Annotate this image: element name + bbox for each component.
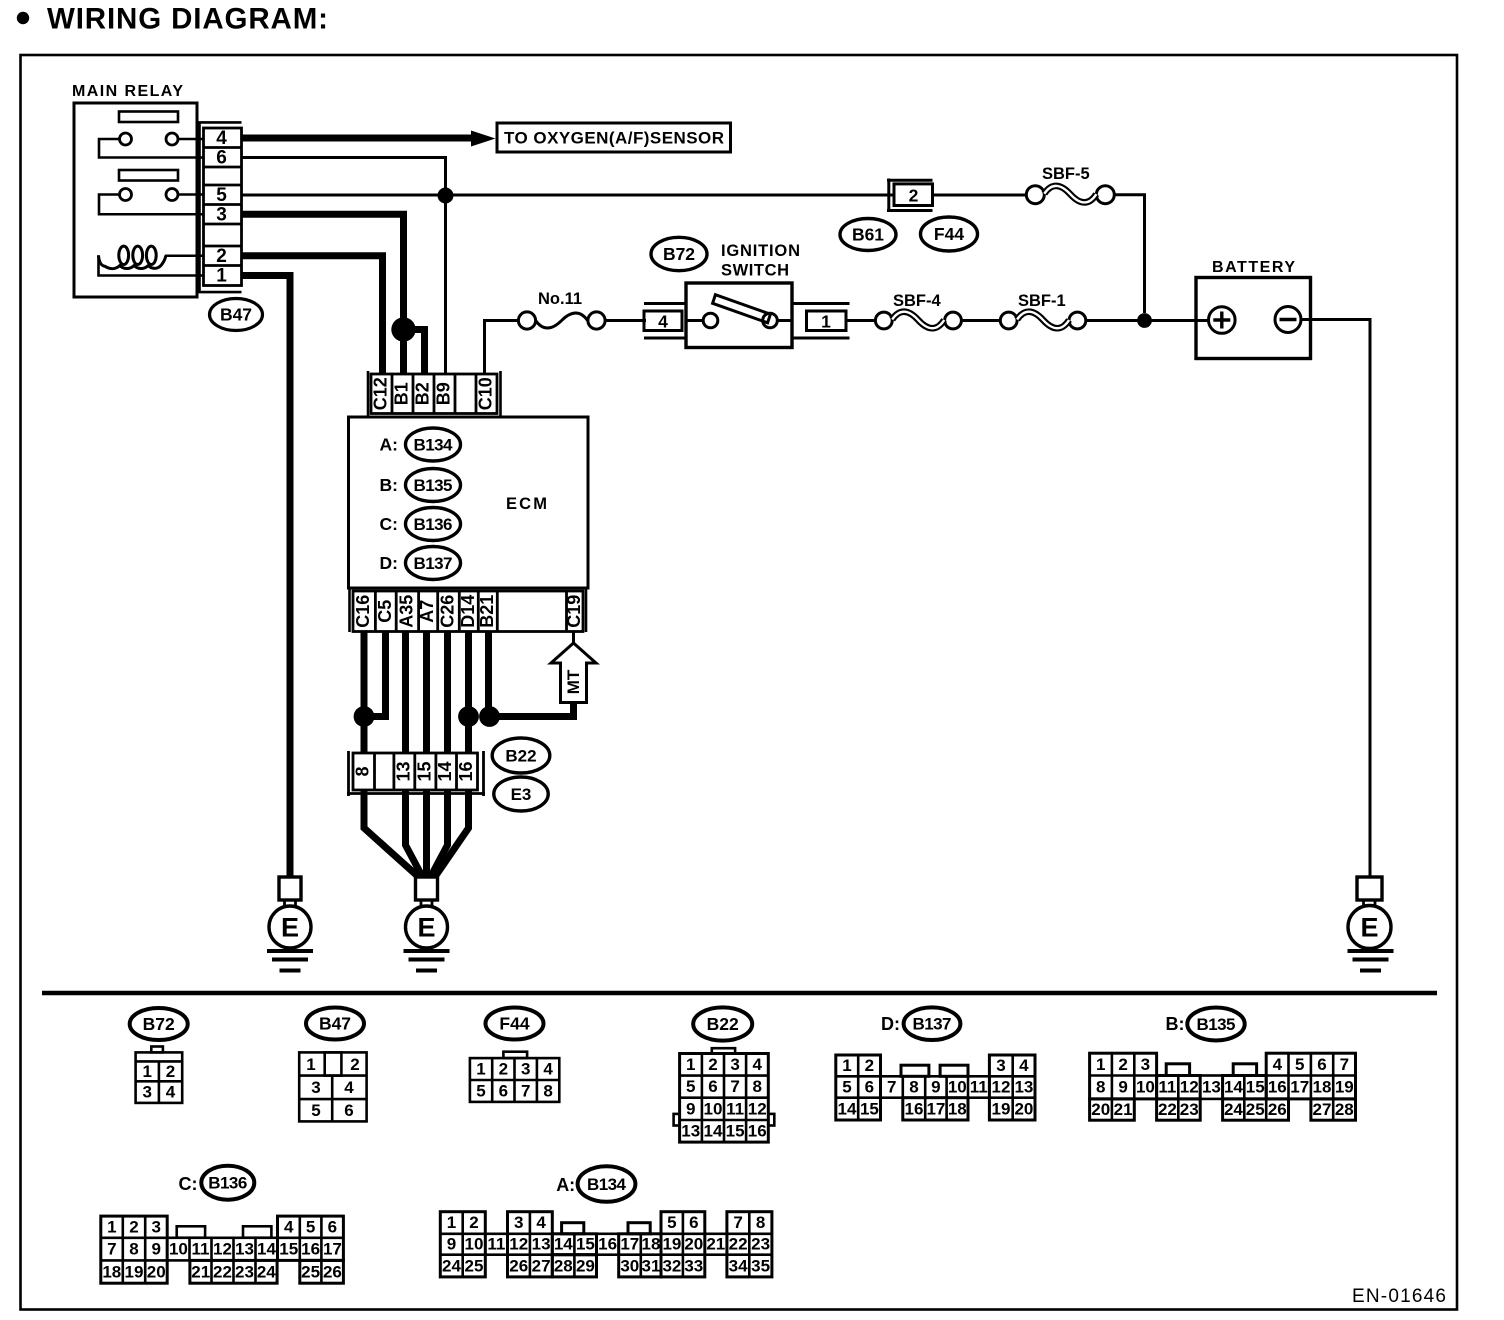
svg-text:5: 5 [667, 1213, 676, 1232]
svg-text:18: 18 [642, 1235, 661, 1254]
wire out of ignition switch [777, 319, 792, 322]
svg-text:13: 13 [1014, 1078, 1033, 1097]
wire relay pin 6 to ECM B9 [242, 158, 446, 375]
svg-text:B61: B61 [852, 225, 884, 245]
svg-text:27: 27 [532, 1256, 551, 1275]
svg-text:26: 26 [509, 1256, 528, 1275]
svg-text:11: 11 [487, 1235, 505, 1254]
svg-text:15: 15 [279, 1240, 298, 1259]
svg-text:17: 17 [620, 1235, 639, 1254]
svg-text:12: 12 [213, 1240, 232, 1259]
svg-text:15: 15 [414, 761, 434, 781]
svg-text:6: 6 [708, 1077, 717, 1096]
E3 connector pin labels [353, 761, 476, 781]
svg-text:SBF-4: SBF-4 [893, 292, 941, 310]
svg-text:2: 2 [708, 1055, 717, 1074]
fuse SBF-5 [1026, 186, 1114, 204]
svg-text:No.11: No.11 [538, 290, 582, 308]
svg-text:6: 6 [689, 1213, 698, 1232]
ignition switch left contact [703, 313, 718, 328]
svg-text:1: 1 [107, 1217, 116, 1236]
svg-text:TO OXYGEN(A/F)SENSOR: TO OXYGEN(A/F)SENSOR [504, 129, 724, 148]
svg-text:4: 4 [344, 1078, 354, 1097]
svg-text:26: 26 [1268, 1100, 1287, 1119]
svg-text:10: 10 [948, 1078, 967, 1097]
svg-text:D:: D: [881, 1014, 900, 1034]
svg-text:1: 1 [447, 1213, 456, 1232]
relay connector B47 bracket [200, 122, 242, 292]
ECM connector B B135 oval [406, 469, 461, 502]
relay pin numbers [216, 128, 227, 287]
svg-text:16: 16 [905, 1099, 924, 1118]
svg-text:MAIN RELAY: MAIN RELAY [72, 83, 183, 100]
svg-text:28: 28 [1335, 1100, 1354, 1119]
svg-text:5: 5 [1295, 1055, 1304, 1074]
svg-text:D14: D14 [458, 595, 478, 628]
svg-text:C26: C26 [438, 595, 458, 628]
svg-text:18: 18 [1313, 1078, 1332, 1097]
svg-text:3: 3 [311, 1078, 320, 1097]
svg-text:12: 12 [1180, 1078, 1199, 1097]
wire E3 pin 14 to ground [431, 790, 448, 876]
wire E3 pin 8 to ground [364, 790, 418, 876]
relay switch 1 left contact [120, 133, 132, 145]
connector label F44 oval [921, 217, 978, 251]
relay switch 2 left contact [120, 189, 132, 201]
svg-text:5: 5 [686, 1077, 695, 1096]
wire ignition pin1 to SBF-4 [846, 319, 875, 322]
wire coil right end to pin 2 [165, 254, 203, 257]
svg-text:B72: B72 [143, 1014, 175, 1034]
ECM connector A B134 oval [406, 428, 461, 461]
wire relay pin 5 toward fuse box connector 2 [242, 194, 895, 197]
svg-text:19: 19 [662, 1235, 681, 1254]
svg-text:MT: MT [564, 669, 583, 694]
ground E middle [404, 877, 450, 971]
svg-text:6: 6 [865, 1078, 874, 1097]
svg-text:31: 31 [642, 1256, 661, 1275]
svg-text:2: 2 [1118, 1055, 1127, 1074]
wire E3 pin 13 to ground [406, 790, 423, 876]
svg-text:15: 15 [860, 1099, 879, 1118]
svg-text:6: 6 [328, 1217, 337, 1236]
svg-text:16: 16 [301, 1240, 320, 1259]
svg-text:16: 16 [1268, 1078, 1287, 1097]
relay switch 1 right contact [166, 133, 178, 145]
svg-text:14: 14 [704, 1122, 723, 1141]
svg-text:17: 17 [1290, 1078, 1309, 1097]
svg-text:4: 4 [1273, 1055, 1283, 1074]
svg-text:11: 11 [1158, 1078, 1176, 1097]
svg-text:4: 4 [752, 1055, 762, 1074]
svg-text:C10: C10 [476, 377, 496, 410]
svg-text:8: 8 [756, 1213, 765, 1232]
fuse No.11 [518, 312, 605, 329]
svg-text:B72: B72 [663, 244, 695, 264]
wire switch2 left contact to pin 3 [99, 195, 203, 215]
pinout B72 connector [136, 1047, 183, 1103]
svg-text:6: 6 [344, 1101, 353, 1120]
ECM bottom connector pin labels [353, 595, 584, 628]
svg-text:5: 5 [311, 1101, 320, 1120]
pinout F44 connector [470, 1052, 559, 1102]
svg-text:35: 35 [751, 1256, 770, 1275]
pinout B47 connector [299, 1052, 366, 1121]
junction dot pin5/pin6 [438, 188, 454, 204]
svg-text:19: 19 [992, 1099, 1011, 1118]
wire ECM C10 to fuse No.11 [485, 321, 519, 375]
svg-text:32: 32 [662, 1256, 681, 1275]
svg-text:10: 10 [1136, 1078, 1155, 1097]
wire switch2 right contact to pin 5 [178, 193, 203, 196]
svg-text:C12: C12 [371, 377, 391, 410]
svg-text:10: 10 [169, 1240, 188, 1259]
wire fuse No.11 to ignition switch pin 4 [605, 319, 646, 322]
connector label B61 oval [840, 219, 896, 251]
wire C26 to E3 pin 14 [444, 632, 451, 754]
svg-text:3: 3 [151, 1217, 160, 1236]
svg-text:19: 19 [125, 1262, 144, 1281]
separator line above connector pinout section [42, 991, 1437, 996]
pinout D:B137 connector [836, 1055, 1035, 1120]
svg-text:22: 22 [213, 1262, 232, 1281]
svg-text:6: 6 [1317, 1055, 1326, 1074]
ECM bottom connector pin strip [353, 591, 583, 632]
svg-text:WIRING DIAGRAM:: WIRING DIAGRAM: [47, 3, 328, 36]
pinout A:B134 connector [440, 1212, 772, 1277]
ECM bottom connector bracket [350, 588, 587, 632]
ignition switch pin 4 box [644, 304, 686, 339]
wire SBF-1 to battery positive [1086, 319, 1209, 322]
ignition switch right contact [763, 313, 778, 328]
svg-text:1: 1 [1096, 1055, 1105, 1074]
svg-text:1: 1 [821, 312, 831, 332]
junction dot battery feed [1137, 313, 1152, 328]
svg-text:14: 14 [838, 1099, 857, 1118]
svg-text:9: 9 [931, 1078, 940, 1097]
svg-text:B21: B21 [477, 595, 497, 628]
svg-text:2: 2 [469, 1213, 478, 1232]
fuse box connector 2 bracket [887, 179, 933, 213]
ECM connector C B136 oval [406, 508, 461, 541]
main relay box [74, 103, 197, 297]
svg-text:17: 17 [926, 1099, 945, 1118]
svg-text:9: 9 [447, 1235, 456, 1254]
svg-text:B134: B134 [587, 1175, 627, 1194]
svg-text:14: 14 [1224, 1078, 1243, 1097]
svg-text:B1: B1 [392, 382, 412, 405]
svg-text:3: 3 [521, 1060, 530, 1079]
relay connector B47 pin strip [204, 128, 242, 286]
svg-text:5: 5 [476, 1082, 485, 1101]
wire C16 to E3 pin 8 [361, 632, 368, 754]
battery negative terminal [1275, 307, 1301, 333]
wire junction to MT arrow [490, 700, 574, 717]
wire battery negative to ground [1301, 320, 1370, 878]
svg-text:14: 14 [554, 1235, 573, 1254]
svg-text:23: 23 [1180, 1100, 1199, 1119]
svg-text:8: 8 [1096, 1078, 1105, 1097]
wire relay pin 2 to ECM C12 [242, 256, 383, 374]
svg-text:C:: C: [179, 1174, 198, 1194]
svg-text:27: 27 [1313, 1100, 1332, 1119]
svg-text:9: 9 [1118, 1078, 1127, 1097]
svg-text:18: 18 [102, 1262, 121, 1281]
svg-text:IGNITION: IGNITION [721, 242, 800, 260]
svg-text:4: 4 [658, 312, 668, 332]
svg-text:3: 3 [142, 1083, 151, 1102]
junction dot pin3 branch [391, 317, 415, 341]
svg-text:25: 25 [1246, 1100, 1265, 1119]
svg-text:24: 24 [257, 1262, 276, 1281]
svg-text:7: 7 [521, 1082, 530, 1101]
svg-text:7: 7 [887, 1078, 896, 1097]
wire relay pin 4 to oxygen sensor arrow [242, 135, 474, 142]
E3 connector bracket [347, 751, 485, 796]
svg-text:2: 2 [499, 1060, 508, 1079]
svg-text:14: 14 [435, 761, 455, 781]
svg-text:21: 21 [1114, 1100, 1133, 1119]
svg-text:SWITCH: SWITCH [721, 262, 789, 280]
svg-text:4: 4 [536, 1213, 546, 1232]
svg-text:21: 21 [191, 1262, 210, 1281]
svg-text:17: 17 [323, 1240, 342, 1259]
wire A7 to E3 pin 15 [423, 632, 430, 754]
svg-text:11: 11 [970, 1078, 988, 1097]
svg-text:13: 13 [393, 761, 413, 781]
svg-text:7: 7 [1340, 1055, 1349, 1074]
svg-text:8: 8 [353, 766, 373, 776]
svg-text:15: 15 [1246, 1078, 1265, 1097]
connector label E3 oval [494, 777, 548, 811]
wire relay pin 1 to ground [242, 276, 291, 878]
wire A35 to E3 pin 13 [402, 632, 409, 754]
wire B21 down to MT junction [485, 632, 492, 717]
svg-text:25: 25 [301, 1262, 320, 1281]
svg-text:11: 11 [192, 1240, 210, 1259]
wire E3 pin 16 to ground [436, 790, 469, 876]
ECM top connector pin labels [371, 377, 496, 410]
svg-text:13: 13 [681, 1122, 700, 1141]
svg-text:4: 4 [216, 128, 227, 149]
wire D14 to E3 pin 16 [465, 632, 472, 754]
svg-text:6: 6 [216, 148, 227, 169]
svg-text:20: 20 [1014, 1099, 1033, 1118]
pinout B137 oval [904, 1007, 961, 1040]
svg-text:C19: C19 [564, 595, 584, 628]
svg-text:3: 3 [996, 1056, 1005, 1075]
svg-text:9: 9 [151, 1240, 160, 1259]
svg-text:15: 15 [726, 1122, 745, 1141]
fuse SBF-1 [1000, 312, 1086, 329]
svg-text:20: 20 [1091, 1100, 1110, 1119]
svg-text:16: 16 [598, 1235, 617, 1254]
connector label B72 oval [651, 237, 707, 270]
svg-text:20: 20 [684, 1235, 703, 1254]
svg-text:8: 8 [909, 1078, 918, 1097]
svg-text:3: 3 [730, 1055, 739, 1074]
svg-text:7: 7 [107, 1240, 116, 1259]
pinout B47 oval [306, 1008, 364, 1040]
svg-text:B9: B9 [434, 382, 454, 405]
svg-text:24: 24 [1224, 1100, 1243, 1119]
svg-text:B:: B: [380, 475, 398, 495]
junction dot B21 [479, 706, 500, 727]
svg-text:B134: B134 [414, 436, 454, 455]
svg-text:4: 4 [284, 1217, 294, 1236]
svg-text:B136: B136 [414, 515, 453, 534]
svg-text:8: 8 [543, 1082, 552, 1101]
svg-text:SBF-5: SBF-5 [1042, 165, 1090, 183]
svg-text:29: 29 [576, 1256, 595, 1275]
svg-text:25: 25 [465, 1256, 484, 1275]
svg-text:12: 12 [748, 1099, 767, 1118]
ignition switch box [686, 283, 792, 348]
svg-text:C:: C: [380, 514, 398, 534]
MT arrow [551, 643, 596, 703]
svg-text:5: 5 [842, 1078, 851, 1097]
svg-text:7: 7 [730, 1077, 739, 1096]
pinout F44 oval [486, 1008, 544, 1040]
svg-text:8: 8 [129, 1240, 138, 1259]
svg-text:1: 1 [476, 1060, 485, 1079]
pinout B136 oval [201, 1166, 254, 1200]
svg-text:B22: B22 [707, 1014, 739, 1034]
svg-text:1: 1 [216, 266, 227, 287]
ground E left [267, 877, 313, 971]
svg-text:22: 22 [729, 1235, 748, 1254]
svg-text:B47: B47 [220, 305, 252, 325]
svg-text:20: 20 [147, 1262, 166, 1281]
relay contact bar 1 [119, 112, 178, 123]
svg-text:21: 21 [706, 1235, 725, 1254]
pinout B72 oval [130, 1008, 188, 1040]
relay contact bar 2 [119, 170, 178, 181]
svg-text:1: 1 [142, 1062, 151, 1081]
svg-text:11: 11 [726, 1099, 744, 1118]
fuse SBF-4 [875, 312, 961, 329]
svg-text:26: 26 [323, 1262, 342, 1281]
svg-text:8: 8 [752, 1077, 761, 1096]
wire branch to ECM B2 [404, 330, 425, 375]
svg-text:6: 6 [499, 1082, 508, 1101]
svg-text:B136: B136 [208, 1174, 247, 1193]
svg-text:B47: B47 [319, 1014, 351, 1034]
svg-text:A:: A: [380, 435, 398, 455]
svg-text:10: 10 [704, 1099, 723, 1118]
svg-text:D:: D: [380, 553, 398, 573]
pinout B:B135 connector [1090, 1053, 1356, 1120]
svg-text:A7: A7 [417, 600, 437, 623]
svg-text:B135: B135 [1197, 1015, 1236, 1034]
wire coil left end to pin 1 [99, 255, 204, 275]
svg-text:5: 5 [216, 185, 227, 206]
svg-text:ECM: ECM [506, 495, 547, 513]
pinout C:B136 connector [101, 1216, 344, 1283]
svg-text:12: 12 [992, 1078, 1011, 1097]
pinout B135 oval [1187, 1008, 1244, 1041]
svg-text:28: 28 [554, 1256, 573, 1275]
svg-text:1: 1 [842, 1056, 851, 1075]
connector label B47 oval [210, 299, 263, 331]
svg-text:30: 30 [620, 1256, 639, 1275]
ECM connector D B137 oval [406, 547, 461, 580]
svg-text:2: 2 [129, 1217, 138, 1236]
wire switch1 left contact to pin 6 [99, 139, 203, 158]
svg-text:C16: C16 [353, 595, 373, 628]
svg-text:2: 2 [350, 1055, 359, 1074]
svg-text:7: 7 [733, 1213, 742, 1232]
svg-text:SBF-1: SBF-1 [1018, 292, 1066, 310]
junction dot D14 [458, 706, 479, 727]
ignition switch lever [713, 295, 771, 323]
svg-text:C5: C5 [375, 600, 395, 623]
wire SBF-4 to SBF-1 [961, 319, 1000, 322]
svg-text:23: 23 [751, 1235, 770, 1254]
svg-text:18: 18 [948, 1099, 967, 1118]
pinout B22 connector [674, 1048, 775, 1142]
svg-text:B:: B: [1166, 1014, 1185, 1034]
svg-text:5: 5 [306, 1217, 315, 1236]
ECM box [349, 417, 589, 588]
svg-text:12: 12 [509, 1235, 528, 1254]
svg-text:10: 10 [465, 1235, 484, 1254]
title bullet [17, 12, 29, 24]
wire connector 2 to SBF-5 [933, 194, 1027, 197]
wire E3 pin 15 to ground [423, 790, 430, 877]
svg-text:3: 3 [1141, 1055, 1150, 1074]
arrowhead to oxygen sensor [471, 131, 496, 147]
svg-text:3: 3 [216, 205, 227, 226]
wire into ignition switch [686, 319, 704, 322]
svg-text:33: 33 [684, 1256, 703, 1275]
svg-text:4: 4 [543, 1060, 553, 1079]
TO OXYGEN(A/F)SENSOR box [497, 123, 731, 152]
svg-text:2: 2 [909, 186, 919, 206]
svg-text:2: 2 [865, 1056, 874, 1075]
svg-text:15: 15 [576, 1235, 595, 1254]
svg-text:1: 1 [306, 1055, 315, 1074]
relay switch 2 right contact [166, 189, 178, 201]
pinout B22 oval [693, 1007, 752, 1040]
svg-text:22: 22 [1158, 1100, 1177, 1119]
svg-text:B137: B137 [414, 554, 453, 573]
ECM top connector pin strip [371, 374, 497, 414]
battery box [1196, 278, 1311, 359]
pinout B134 oval [578, 1166, 636, 1202]
svg-text:13: 13 [532, 1235, 551, 1254]
junction dot C16/C5 [354, 706, 375, 727]
wire switch1 right contact to pin 4 [178, 138, 203, 141]
svg-text:B137: B137 [913, 1015, 952, 1034]
svg-text:1: 1 [686, 1055, 695, 1074]
svg-text:16: 16 [456, 761, 476, 781]
svg-text:4: 4 [1019, 1056, 1029, 1075]
svg-text:13: 13 [235, 1240, 254, 1259]
svg-text:2: 2 [166, 1062, 175, 1081]
svg-text:B22: B22 [505, 747, 536, 766]
ignition switch pin 1 box [792, 304, 850, 339]
svg-text:9: 9 [686, 1099, 695, 1118]
ECM top connector bracket [368, 371, 501, 416]
wire C5 to ground junction [372, 632, 386, 717]
svg-text:A35: A35 [396, 595, 416, 628]
svg-text:E: E [1360, 913, 1378, 943]
svg-text:3: 3 [514, 1213, 523, 1232]
svg-text:F44: F44 [499, 1014, 529, 1034]
svg-text:B2: B2 [413, 382, 433, 405]
svg-text:E3: E3 [511, 785, 532, 804]
